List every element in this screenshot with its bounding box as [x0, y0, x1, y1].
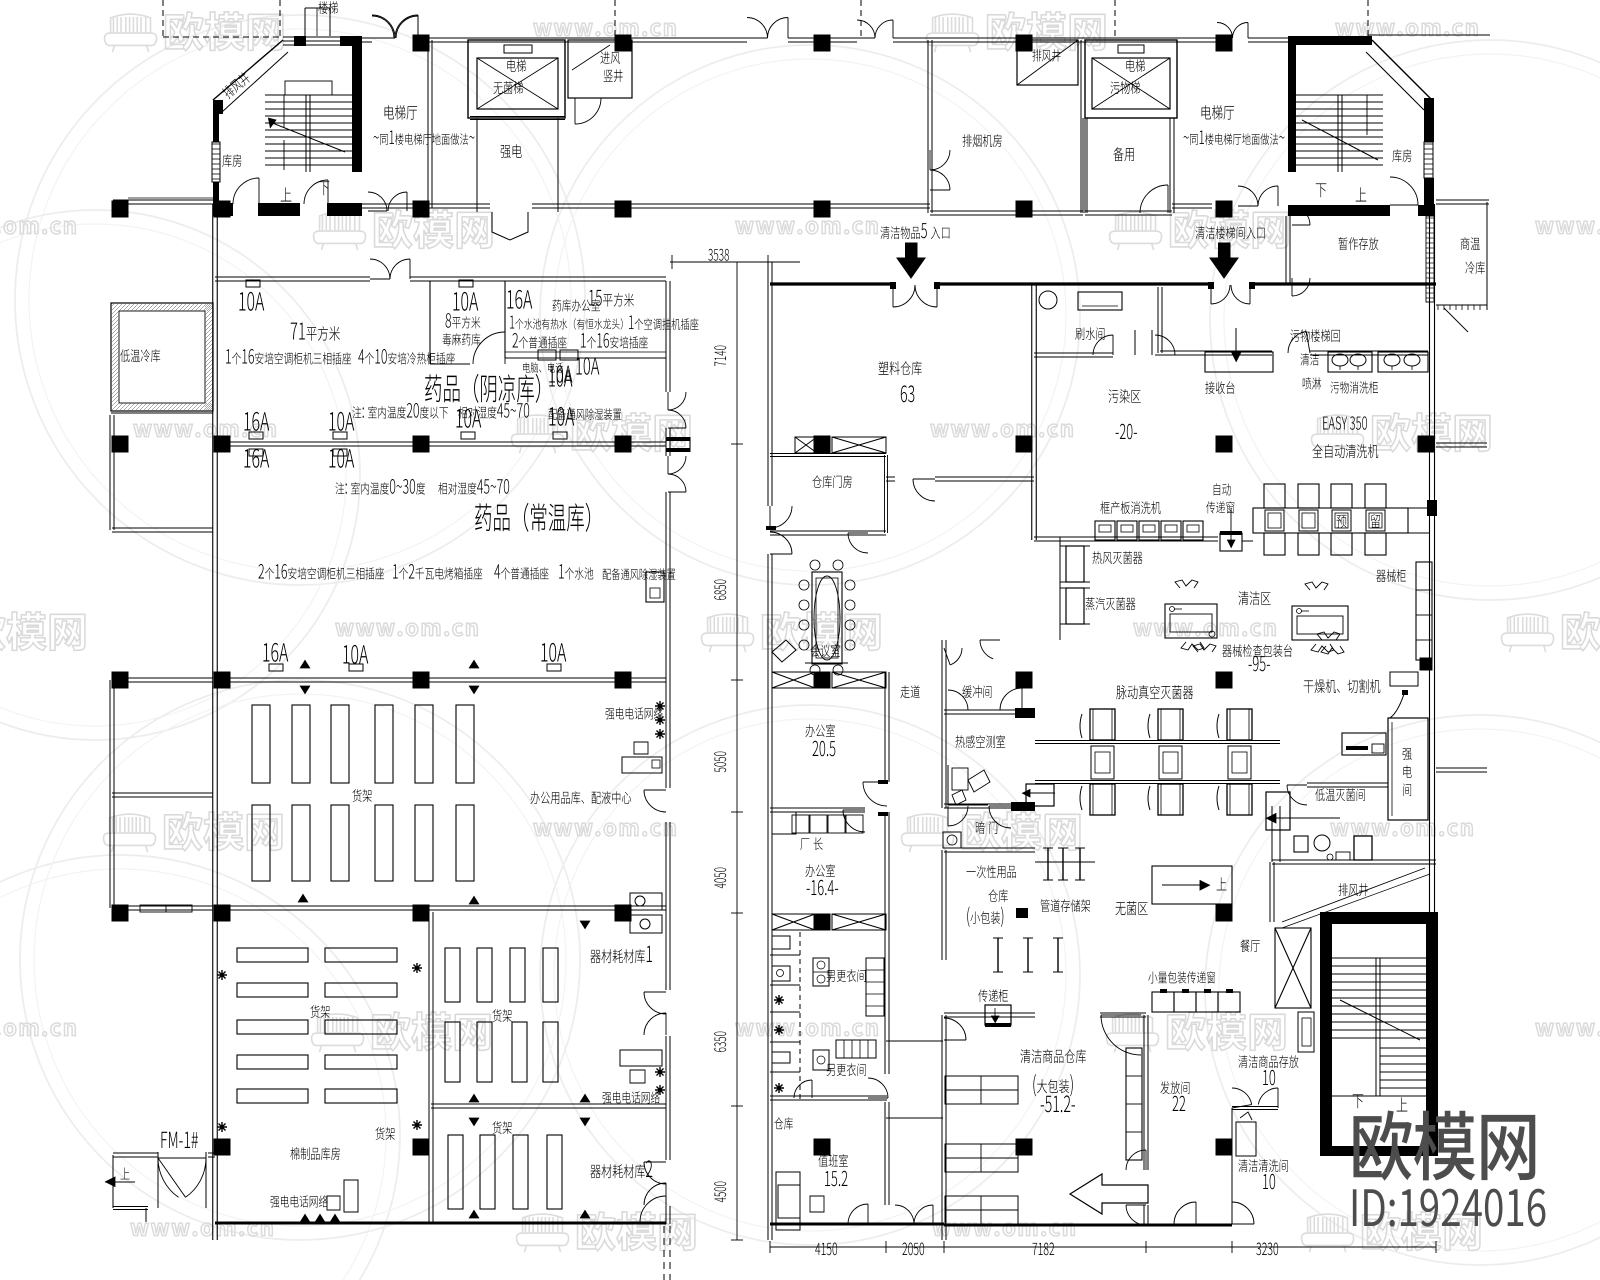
管道存储架 group1 — [1035, 861, 1095, 863]
pass box 低温灭菌间 left — [1266, 792, 1290, 830]
labels 电脑电话 10A — [523, 362, 563, 373]
whiteboard diamond — [772, 640, 796, 662]
big watermark 欧模网 bottom-right — [1353, 1110, 1535, 1180]
wall x1232 bottom — [1231, 1108, 1233, 1224]
dim 4050 — [714, 868, 726, 889]
sockets row 16A 10A above divider — [244, 412, 269, 431]
sockets below divider — [244, 449, 269, 468]
watermark url — [0, 1023, 75, 1036]
小量包装传递窗 — [1148, 971, 1215, 983]
dimension chain vertical x737 — [736, 262, 738, 1240]
watermark circle — [0, 210, 360, 740]
doors 刷水间 — [1093, 335, 1113, 355]
label 楼梯 top — [318, 1, 337, 14]
labels 下 上 bottom stairs — [1353, 1094, 1364, 1108]
watermark url — [131, 1223, 273, 1236]
pass box 暗门 — [976, 821, 997, 834]
door 药品 top — [370, 259, 390, 279]
room 仓库门房 walls — [770, 453, 886, 455]
labels 阴凉库 specs — [291, 323, 340, 341]
arrow down into 接收台 — [1235, 328, 1237, 360]
label 清洁物品 入口 left — [880, 223, 949, 239]
room 餐厅 small — [1240, 939, 1259, 952]
labels EASY350 全自动清洗机 — [1323, 416, 1367, 429]
title 药品（阴凉库） — [425, 374, 540, 403]
干燥机切割机 label — [1304, 679, 1381, 693]
预留 conveyor band — [1253, 508, 1408, 533]
强电间 room — [1388, 718, 1428, 820]
wall stub right y768 — [1436, 767, 1487, 769]
desk 办公用品库 — [622, 757, 662, 773]
doors 器材耗材库 right wall — [644, 992, 666, 1014]
walls 发放间 — [1143, 1015, 1145, 1170]
columns divider — [112, 436, 129, 453]
room 毒麻药库 — [429, 281, 431, 364]
清洁商品存放 — [1238, 1055, 1298, 1068]
pass box with down arrow — [1220, 533, 1242, 551]
door 库房 top-right — [1390, 177, 1418, 205]
watermark circle — [15, 15, 585, 585]
door 办公用品库 right wall — [644, 790, 666, 812]
column 仓库 — [1016, 1139, 1033, 1156]
stairwell right window hatch — [1424, 142, 1433, 178]
right strip fixtures — [772, 812, 796, 834]
stairwell top-left walls — [283, 36, 352, 38]
stairwell left window hatch — [212, 142, 220, 182]
offices strip window x-strip y680 — [772, 672, 815, 688]
watermark url — [736, 221, 878, 234]
arrow entrance right — [1210, 243, 1238, 278]
packing table dots — [1209, 631, 1215, 637]
label 会议室 — [811, 644, 840, 657]
doors 污物暂存 — [1292, 207, 1310, 225]
elevator 污物梯 shaft — [1085, 40, 1177, 118]
label 脉动真空灭菌器 — [1116, 685, 1193, 699]
corridor right wall x668 lower — [665, 680, 667, 788]
wall 棉制品库房 right x430 — [428, 912, 430, 1224]
bottom-left corner walls — [112, 1155, 114, 1208]
wall 更衣间 y1098 — [770, 1095, 887, 1097]
sockets 常温库 bottom — [263, 643, 288, 662]
label 货架 器材1 — [492, 1009, 511, 1022]
washer boxes row y521 — [1095, 521, 1115, 540]
main right wall x1432 — [1429, 204, 1431, 922]
main left vertical wall — [212, 204, 214, 1240]
big left arrow 发放间 — [1070, 1174, 1148, 1214]
pass window x1432 y500 — [1427, 500, 1437, 516]
locker pairs 更衣间 — [813, 958, 829, 986]
corridor wall x886 — [884, 672, 886, 782]
doors corridor x770 — [770, 506, 792, 528]
right corridor wall x770 — [767, 262, 769, 506]
清洁清洗间 — [1238, 1159, 1287, 1172]
double door 电梯厅 lower — [368, 192, 387, 211]
partition 办公室/厂长 y810 — [770, 807, 865, 809]
title 药品（常温库） — [475, 503, 590, 532]
wall y1015 center — [944, 1012, 1035, 1014]
watermark logo — [105, 14, 157, 52]
right strip small rooms lower — [770, 954, 800, 956]
doors on y283 — [893, 285, 915, 307]
room 药库办公室 box — [504, 281, 506, 358]
sockets 药库办公室 — [538, 350, 556, 360]
label ~同1楼电梯厅地面做法~ — [374, 130, 475, 145]
stairwell bottom wall thick — [213, 203, 233, 216]
corridor cross stubs — [886, 1040, 943, 1042]
label 走道 — [900, 685, 919, 698]
left rooms partition walls — [111, 412, 213, 414]
racks 办公用品库 row1 — [252, 705, 270, 783]
label 库房 right — [1392, 149, 1411, 162]
label 无菌区 — [1116, 901, 1148, 915]
columns y444 right side — [814, 436, 831, 453]
lab fixtures under — [1294, 836, 1308, 852]
label 厂长 — [800, 837, 822, 850]
fixtures near 强电间 — [1342, 733, 1386, 755]
仓库门房 window strip — [795, 437, 817, 453]
arrow 上 bottom-left — [105, 1181, 135, 1183]
传递柜 pass box — [978, 989, 1008, 1002]
labels 污染区 — [1109, 389, 1141, 403]
watermark logo — [1302, 1214, 1354, 1252]
清洁区 washers — [1238, 591, 1270, 605]
desk 热感空测室 — [948, 765, 988, 805]
doors bottom right rooms — [1232, 1202, 1254, 1224]
corridor left wall x770 lower — [767, 680, 769, 1240]
watermark url — [336, 623, 478, 636]
racks 棉制品库房 horizontal — [237, 948, 308, 962]
label 电梯厅 left — [385, 105, 418, 120]
left wall top stub — [113, 199, 213, 201]
labels 药库办公室 — [507, 290, 532, 309]
door 排烟机房 double — [930, 150, 950, 170]
label 办公室2 — [805, 864, 834, 877]
watermark logo — [1110, 212, 1162, 250]
corridor doors x666 — [668, 392, 686, 410]
room bottom wall 热感空测室 — [944, 803, 1011, 805]
double door corridor bottom — [887, 1223, 944, 1226]
stair treads bottom-right — [1332, 957, 1426, 959]
door 进风竖井 — [575, 98, 601, 124]
top-right outer wall segment — [1368, 34, 1490, 36]
door right end bottom wall — [640, 1196, 666, 1222]
label 10A row1 — [239, 292, 264, 311]
watermark url — [534, 823, 676, 836]
label 仓库 right strip — [774, 1117, 793, 1129]
wall bottom left y1222 — [215, 1222, 666, 1225]
bottom-right stairwell thick walls — [1320, 912, 1438, 924]
labels 上 下 stairwell top-left — [281, 187, 292, 201]
bottom dimension line — [770, 1246, 1436, 1248]
columns y680/913 right side — [1216, 672, 1233, 689]
room 一次性用品仓库 — [944, 847, 1035, 849]
meeting table 会议室 — [812, 572, 842, 664]
清洁喷淋 labels — [1300, 353, 1318, 365]
强电电话网络 fixtures 棉制品 — [271, 1195, 328, 1208]
labels 电梯 无菌梯 — [507, 59, 525, 72]
fixture sinks right of y908 — [630, 893, 662, 910]
room 备用 — [1082, 118, 1084, 213]
office labels — [805, 724, 834, 737]
wall y908 storages bottom — [215, 905, 666, 907]
racks 器材耗材库2 — [448, 1135, 463, 1209]
cabinet strip 发放间 — [1126, 1048, 1142, 1160]
column 棉制品 corner — [214, 1139, 231, 1156]
room 强电 — [470, 116, 565, 118]
label 棉制品库房 — [290, 1147, 339, 1160]
conveyor B band — [1035, 740, 1280, 742]
door office1 — [863, 782, 887, 806]
walls 污物楼梯回 — [1157, 287, 1159, 353]
强电 door pentagon — [492, 212, 528, 240]
bottom wall offices — [770, 1223, 887, 1226]
labels 清洁商品仓库 — [1020, 1049, 1086, 1063]
watermark logo — [104, 814, 156, 852]
watermark logo — [517, 1214, 569, 1252]
elevator lobby wall — [427, 40, 429, 208]
watermark circle — [0, 855, 400, 1280]
labels 下 上 stairwell top-right — [1316, 183, 1327, 197]
wall stub right x1436 y443 — [1436, 442, 1487, 444]
watermark url — [0, 221, 75, 234]
wall hatch 商温冷库 left — [1426, 216, 1434, 302]
label 污物滑槽柜 — [1330, 381, 1377, 393]
dim 4500 — [714, 1182, 726, 1203]
corridor right wall x666 upper — [665, 281, 667, 392]
watermark url — [931, 424, 1073, 437]
watermark url — [1536, 1023, 1600, 1036]
room 热感空测室 — [944, 709, 1015, 711]
note 常温库 — [335, 479, 425, 495]
label 自动传递窗 — [1214, 483, 1231, 495]
watermark circle — [1210, 40, 1600, 600]
window strip 2 — [772, 914, 815, 930]
room 低温冷库 hatched walls — [111, 303, 213, 411]
watermark logo — [702, 614, 754, 652]
shelf grids 仓库 — [945, 1076, 1018, 1090]
elevator 无菌梯 shaft — [468, 40, 565, 118]
pass window arrow left — [1026, 784, 1054, 806]
double door left of 电梯厅 — [372, 16, 394, 38]
label 仓库门房 — [812, 475, 851, 488]
room 污物暂存 — [1285, 216, 1287, 283]
label 货架 器材2 — [492, 1121, 511, 1134]
watermark logo — [1312, 415, 1364, 453]
strongbox corner fixtures — [606, 707, 663, 720]
window in left wall bottom — [140, 905, 192, 912]
watermark logo — [312, 1014, 364, 1052]
dimension 3538 top — [670, 261, 770, 263]
sterilizers 热风灭菌器 — [1066, 546, 1084, 582]
sink fixture 常温库 — [646, 572, 664, 602]
racks 器材耗材库1 row1 — [445, 948, 460, 1002]
watermark logo — [902, 814, 954, 852]
dim 7140 — [714, 346, 726, 366]
watermark url — [933, 1223, 1075, 1236]
labels 毒麻药库 — [446, 313, 481, 328]
label 器材耗材库1 — [590, 946, 652, 963]
label 电梯厅 right — [1202, 105, 1235, 120]
corridor wall x944 — [941, 640, 943, 712]
wall 药品 top y277 — [215, 276, 370, 278]
watermark circle — [20, 680, 580, 1240]
cabinets row 厂长 — [792, 815, 809, 833]
bottom wall right section — [944, 1224, 1232, 1227]
racks 器材耗材库1 row2 — [445, 1022, 460, 1082]
ramp box 上 — [1152, 866, 1232, 904]
watermark logo — [314, 212, 366, 250]
meeting table 2 left — [807, 699, 809, 701]
label 强电电话网络 器材1 — [603, 1091, 660, 1104]
器械柜 right — [1376, 569, 1405, 582]
watermark logo — [1107, 1014, 1159, 1052]
room 商温冷库 — [1436, 199, 1489, 201]
room 排风井 right — [1017, 40, 1078, 85]
管道存储架 group2 — [997, 938, 999, 972]
watermark logo — [1502, 614, 1554, 652]
label 办公用品库配液中心 — [530, 791, 631, 804]
label 清洁楼梯间入口 right — [1195, 226, 1264, 239]
door arc 仓库 left top — [944, 1018, 966, 1040]
stair arrow top-right — [1302, 120, 1378, 160]
room 塑料仓库 — [879, 361, 922, 375]
main wall y283 right part — [770, 282, 893, 285]
wire curve — [1390, 694, 1404, 718]
columns grid top rows — [413, 35, 430, 52]
label 货架 棉制品 — [310, 1005, 329, 1018]
接收台 — [1205, 352, 1273, 372]
watermark url — [1134, 623, 1276, 636]
corridor dashed below — [663, 1226, 665, 1280]
watermark url — [736, 1023, 878, 1036]
watermark circle — [540, 45, 1080, 585]
label 器材耗材库2 — [590, 1160, 652, 1178]
cleaning cart — [1236, 1122, 1256, 1156]
stairwell top-right walls — [1288, 36, 1296, 172]
arrow entrance left — [897, 243, 925, 278]
big watermark ID:1924016 — [1353, 1189, 1546, 1227]
label 排风井 top-left — [221, 71, 252, 100]
roof dashed outline top-left — [162, 0, 164, 38]
stair treads top-right — [1296, 94, 1383, 96]
stair arrow — [270, 122, 345, 152]
dim 6350 — [714, 1032, 726, 1052]
double door near 1238 y206 — [1238, 186, 1258, 206]
racks 办公用品库 row2 — [252, 805, 270, 881]
room 进风竖井 top — [568, 40, 632, 98]
stairwell top-right bottom wall — [1288, 205, 1390, 216]
conveyor B trays — [1090, 709, 1115, 740]
top outer wall — [360, 37, 372, 39]
缓冲间 label — [962, 685, 991, 698]
column x1024 y680 — [1016, 672, 1033, 689]
wall 器材耗材库 divider y1105 — [431, 1103, 666, 1105]
left outer wall segments — [109, 415, 111, 530]
label 货架 2 — [375, 1127, 394, 1140]
grid dashed stubs top — [614, 0, 616, 36]
long wall y539 — [1034, 536, 1218, 538]
低温灭菌间 — [1307, 782, 1388, 784]
note 阴凉库 — [352, 403, 448, 419]
wall 常温库 bottom y680 — [215, 677, 666, 679]
stairwell doors — [233, 178, 259, 204]
wall niche x666 divider — [666, 437, 690, 441]
watermark url — [1331, 823, 1473, 836]
divider wall 阴凉/常温 — [215, 441, 666, 443]
柜产板清洗机 label — [1100, 501, 1160, 514]
stair hatch above top-left stairwell — [304, 8, 306, 36]
room 排风井 bottom-right — [1269, 862, 1271, 922]
washing sinks row — [1328, 352, 1372, 372]
watermark url — [534, 23, 676, 36]
long wall y206 under elevators — [362, 203, 490, 205]
label 污物楼梯回 — [1290, 329, 1339, 342]
wall x1060 segment — [1059, 537, 1061, 640]
person icons — [1317, 632, 1340, 640]
dim 6850 — [714, 580, 726, 600]
specs 常温库 — [259, 564, 384, 580]
label 货架 center — [352, 789, 371, 802]
watermark url — [134, 424, 276, 437]
FM-1 door bottom-left — [162, 1132, 199, 1148]
room 刷水间 — [1034, 352, 1113, 354]
dim 5050 — [714, 752, 726, 773]
doors 清洁商品存放 — [1232, 1106, 1278, 1108]
elevator left of stairs — [1275, 928, 1311, 1008]
watermark circle — [1205, 715, 1600, 1265]
wall y862 right — [1272, 859, 1436, 861]
door arcs 发放间 bottom — [1126, 1205, 1146, 1225]
watermark url — [1536, 221, 1600, 234]
更衣间 rooms — [827, 969, 866, 982]
top wall door leafs — [372, 15, 395, 38]
值班室 — [814, 1139, 831, 1156]
器械检查包装台 label — [1222, 644, 1292, 657]
stair treads top-left — [265, 94, 352, 96]
label 库房 left — [222, 154, 241, 167]
watermark circle — [540, 705, 1080, 1245]
watermark logo — [512, 415, 564, 453]
stair arrow bottom-right — [1340, 1000, 1420, 1040]
desk 器材耗材库1 — [620, 1050, 662, 1066]
room 排烟机房 — [927, 40, 929, 213]
desk 值班室 — [778, 1185, 800, 1218]
sterilizer 蒸汽灭菌器 — [1066, 588, 1084, 624]
watermark logo — [927, 14, 979, 52]
watermark url — [1336, 23, 1478, 36]
door 备用 — [1140, 185, 1168, 213]
